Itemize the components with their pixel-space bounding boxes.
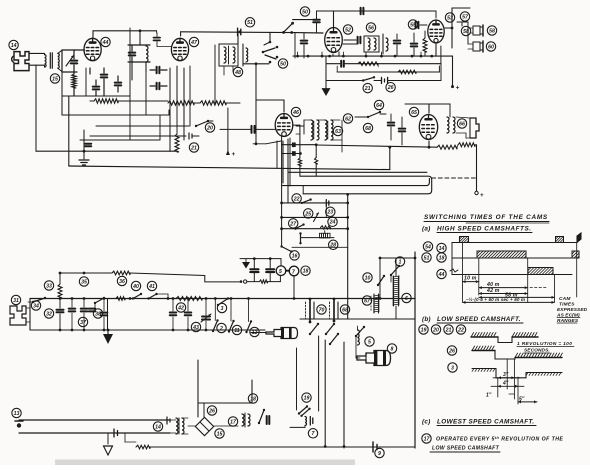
wire y442 <box>117 433 136 442</box>
ref 26t <box>447 346 456 355</box>
bus y140 <box>80 139 160 141</box>
caps mid right <box>388 114 406 145</box>
ref 41 <box>147 281 156 290</box>
switch pot <box>299 232 301 244</box>
ref 65 <box>409 107 418 116</box>
switch 51 blade <box>284 19 294 34</box>
ref 31 <box>11 295 20 304</box>
svg-text:11: 11 <box>234 328 239 334</box>
ref 56 <box>366 23 375 32</box>
switch 2b <box>212 319 219 332</box>
svg-text:15: 15 <box>52 76 58 82</box>
svg-text:6: 6 <box>405 296 408 302</box>
relay coil 68 <box>330 298 339 323</box>
wire tank down <box>132 62 146 80</box>
ref 11 <box>232 325 241 334</box>
ref 12 <box>250 327 259 336</box>
main bus y298 <box>30 297 415 300</box>
screen cap <box>115 76 122 92</box>
svg-text:51: 51 <box>247 20 253 26</box>
bypass cap C2 <box>93 80 100 96</box>
transformer T1 <box>45 50 63 71</box>
ref 15b <box>215 429 224 438</box>
switch 20 <box>195 120 213 127</box>
svg-text:25: 25 <box>304 211 311 217</box>
ref 34 <box>31 301 40 310</box>
jack wires <box>251 332 266 334</box>
svg-text:27: 27 <box>289 221 297 227</box>
cap 50t <box>313 11 320 33</box>
vert x326 <box>319 336 326 446</box>
battery 13 <box>15 417 23 428</box>
cathode resistor R1 <box>72 68 107 96</box>
dim b vert <box>498 359 518 404</box>
transformer 14 <box>170 418 188 434</box>
caps on buses <box>0 0 1 1</box>
transformer 66 <box>444 117 455 133</box>
ref 35 <box>79 277 88 286</box>
dim 10m <box>463 276 479 284</box>
ref 37 <box>78 317 87 326</box>
tube V2 <box>171 38 188 60</box>
bus y101-115 <box>62 101 240 115</box>
grid cap C1 <box>71 50 78 72</box>
ground V4 <box>322 56 331 96</box>
svg-text:HIGH SPEED CAMSHAFTS.: HIGH SPEED CAMSHAFTS. <box>437 226 532 233</box>
microphone input jack <box>12 52 29 71</box>
mid verticals <box>130 28 215 140</box>
V3 V6 row wires <box>277 134 300 186</box>
ref 19b <box>302 393 311 402</box>
row2 bar2 <box>572 251 579 258</box>
wire V3 top <box>256 100 284 112</box>
ref 50b <box>278 59 287 68</box>
relay coil 67 <box>371 294 380 313</box>
row3 circle <box>437 269 458 279</box>
switch 1 <box>390 265 400 282</box>
tube V1V2 down wires <box>86 66 190 151</box>
variable resistor arrow <box>62 50 74 72</box>
wire rotary up <box>269 32 271 42</box>
gnd big <box>103 330 113 344</box>
svg-text:1 REVOLUTION = 100: 1 REVOLUTION = 100 <box>517 341 572 347</box>
rotary switch 50 <box>262 41 279 64</box>
ref 17t <box>422 434 431 443</box>
ref 51 <box>245 18 254 27</box>
left verticals <box>62 72 69 166</box>
res bottom <box>125 442 190 449</box>
title a <box>422 226 532 233</box>
tube V6 <box>419 115 437 140</box>
svg-text:(a): (a) <box>422 226 430 233</box>
cap 19 <box>310 417 313 426</box>
svg-text:OPERATED EVERY 5th REVOLUTI: OPERATED EVERY 5th REVOLUTION OF THE <box>436 436 563 443</box>
svg-text:1″: 1″ <box>486 393 492 399</box>
ref 3t <box>448 363 457 372</box>
wire mic to transformer <box>29 53 44 151</box>
switch 12 <box>245 320 252 333</box>
res to oplus <box>457 143 477 191</box>
cap 32c <box>57 310 64 313</box>
tube V5 <box>428 20 444 43</box>
cap bottom <box>114 429 118 437</box>
dim verticals <box>463 243 577 303</box>
svg-text:58: 58 <box>489 28 495 34</box>
v3 plate down <box>293 125 302 176</box>
wire 26 <box>198 403 252 417</box>
cathode V5 <box>435 44 437 56</box>
res row y65 <box>358 62 416 74</box>
ref 9 <box>375 448 384 457</box>
ref 60 <box>486 42 495 51</box>
svg-text:5: 5 <box>279 269 282 275</box>
svg-text:SECONDS.: SECONDS. <box>524 348 550 354</box>
wire IF to rotary <box>237 32 239 44</box>
ref 22 <box>292 194 301 203</box>
ref 57 <box>460 12 469 21</box>
ref 18m <box>301 266 310 275</box>
switch 40 <box>132 293 146 300</box>
chain verticals <box>198 348 297 417</box>
tube V1 <box>84 38 101 60</box>
coupling cap 2628 <box>0 0 1 1</box>
wire T1 top to tube grid <box>62 49 85 51</box>
cap V3 left <box>220 126 275 133</box>
svg-text:15: 15 <box>217 431 223 437</box>
plug 8 <box>357 351 391 366</box>
filament loop <box>19 420 170 433</box>
svg-text:64: 64 <box>376 103 382 109</box>
svg-text:~½·(0·5 + 60 m sec + 60 m: ~½·(0·5 + 60 m sec + 60 m <box>466 296 525 302</box>
svg-text:26: 26 <box>208 408 215 414</box>
cam times note <box>556 296 588 324</box>
dim 3in <box>493 372 520 379</box>
gnd arrow mid <box>242 259 250 269</box>
cap rail <box>238 28 241 36</box>
ref 38 <box>93 309 102 318</box>
svg-text:14: 14 <box>439 246 445 252</box>
ref 47 <box>189 37 198 46</box>
svg-text:50: 50 <box>280 61 286 67</box>
svg-text:41: 41 <box>148 284 155 290</box>
antenna input <box>295 33 307 58</box>
note 17b <box>430 446 500 453</box>
plus arrow <box>226 108 236 158</box>
o resistor <box>240 275 281 283</box>
svg-text:3″: 3″ <box>503 372 509 378</box>
cap 18 <box>266 414 272 426</box>
ref 42 <box>176 303 185 312</box>
svg-text:65: 65 <box>411 110 417 116</box>
bus2 y63 <box>326 46 441 67</box>
battery 26b <box>374 77 388 83</box>
bus y273 <box>59 272 240 282</box>
mid caps right block <box>394 31 427 56</box>
ref 70 <box>317 305 326 314</box>
svg-text:42 m: 42 m <box>486 288 500 294</box>
bus res 42 <box>176 297 202 301</box>
ref 50 <box>300 7 309 16</box>
row b circles <box>419 325 466 334</box>
svg-text:19: 19 <box>304 395 310 401</box>
long bus y166 <box>69 166 390 170</box>
svg-text:3: 3 <box>451 365 454 371</box>
ref 33 <box>44 281 53 290</box>
wire y176 <box>300 176 431 194</box>
motor drop <box>293 276 295 299</box>
svg-text:60: 60 <box>488 44 494 50</box>
svg-text:54: 54 <box>425 244 431 250</box>
earpiece 60 <box>468 41 483 52</box>
loop end comp <box>167 417 170 433</box>
ref 67 <box>362 296 371 305</box>
wire 66 out <box>453 117 470 138</box>
ref 58a <box>461 26 470 35</box>
ref 40 <box>131 281 140 290</box>
ref 16m <box>290 251 299 260</box>
res 39 <box>0 0 1 1</box>
ref 10 <box>363 273 372 282</box>
note 17 <box>436 436 563 443</box>
V6 cathode res <box>428 141 457 149</box>
row3 <box>280 227 348 230</box>
bus y136 <box>90 133 199 139</box>
battery 9 <box>369 442 377 452</box>
svg-text:21: 21 <box>445 327 452 333</box>
ref 26b2 <box>207 406 216 415</box>
ref 68 <box>340 305 349 314</box>
svg-text:68: 68 <box>365 126 371 132</box>
svg-text:50: 50 <box>302 9 308 15</box>
stub y153 <box>282 151 302 156</box>
svg-text:26: 26 <box>387 85 394 91</box>
motor 7 <box>289 266 299 276</box>
svg-text:31: 31 <box>13 298 19 304</box>
wire V6 top <box>405 104 450 117</box>
earphone 31 <box>10 306 26 325</box>
gnd drop wire <box>107 299 109 331</box>
wire y417 <box>190 418 196 448</box>
bus3 y72 <box>337 66 439 72</box>
dashed line to oterm <box>432 177 477 179</box>
wire y19 <box>293 19 316 21</box>
wire v259 <box>243 62 269 145</box>
central verticals <box>282 136 288 247</box>
ref 23 <box>326 207 335 216</box>
wire 19 left <box>290 426 305 428</box>
cap mid2 <box>150 83 167 90</box>
ground amp <box>79 130 89 165</box>
svg-text:(b): (b) <box>422 316 431 323</box>
row1 <box>280 202 348 205</box>
left bottom bus <box>30 299 265 332</box>
svg-text:4″: 4″ <box>502 381 509 387</box>
dim 40m <box>479 282 548 289</box>
svg-text:44: 44 <box>438 272 445 278</box>
wire 4041 <box>163 294 168 299</box>
title b <box>422 316 523 323</box>
svg-text:32: 32 <box>46 311 52 317</box>
motor 5 <box>276 266 289 276</box>
svg-text:42: 42 <box>177 305 184 311</box>
svg-text:52: 52 <box>345 27 351 33</box>
relay contacts <box>309 321 335 335</box>
svg-text:2: 2 <box>219 326 223 332</box>
relay vert right <box>380 252 415 448</box>
row1 line <box>452 243 577 275</box>
ref 43 <box>191 322 200 331</box>
svg-text:22: 22 <box>457 327 464 333</box>
svg-text:+: + <box>232 152 236 158</box>
anode resistor row <box>94 99 226 105</box>
battery 23 <box>326 200 329 218</box>
ref 1 <box>395 257 404 266</box>
ref 25 <box>304 209 313 218</box>
svg-text:21: 21 <box>364 86 371 92</box>
revolution note <box>517 341 574 354</box>
IF can stubs <box>224 66 233 75</box>
svg-text:20: 20 <box>432 327 439 333</box>
svg-text:10 m: 10 m <box>464 276 477 282</box>
rowb1 <box>471 333 538 343</box>
svg-text:36: 36 <box>119 279 125 285</box>
transformer 62-63 <box>296 120 342 152</box>
svg-text:48: 48 <box>234 70 241 76</box>
res 24 <box>321 226 331 229</box>
row2 line <box>452 257 572 259</box>
ref 24 <box>328 217 337 226</box>
wire y169 <box>288 146 427 173</box>
wire sw row <box>388 64 441 81</box>
svg-text:9: 9 <box>378 451 381 457</box>
switch 10 <box>377 275 385 286</box>
ref 61 <box>0 0 1 1</box>
ref 26b <box>386 83 395 92</box>
top relay feed <box>379 252 417 273</box>
wire V5 top <box>406 11 436 18</box>
row2 bar <box>477 251 526 258</box>
switch 22 <box>301 198 312 204</box>
output device <box>470 118 479 138</box>
svg-text:21: 21 <box>190 145 197 151</box>
dim 1in <box>486 393 514 399</box>
svg-text:40: 40 <box>132 284 139 290</box>
cap 57 top <box>458 7 470 9</box>
svg-text:LOWEST SPEED CAMSHAFT.: LOWEST SPEED CAMSHAFT. <box>437 419 534 426</box>
coil small <box>0 0 1 1</box>
svg-text:LOW SPEED CAMSHAFT.: LOW SPEED CAMSHAFT. <box>437 316 521 323</box>
ref 27 <box>289 219 298 228</box>
motor wires <box>240 257 281 266</box>
ref 53 <box>445 13 454 22</box>
tube V4 <box>325 28 343 53</box>
svg-text:LOW SPEED CAMSHAFT: LOW SPEED CAMSHAFT <box>432 446 500 452</box>
ref 7b <box>308 429 317 438</box>
resistor 21 <box>175 103 179 160</box>
switch 18b <box>252 403 265 424</box>
ref 64 <box>374 100 383 109</box>
IF transformer 48 <box>219 44 248 66</box>
ref 5r <box>365 337 374 346</box>
dim 5in <box>518 397 537 404</box>
V4 cathode down <box>333 52 339 56</box>
svg-text:26: 26 <box>448 348 455 354</box>
coil 5a <box>358 326 360 345</box>
plug 8 wires <box>356 344 360 358</box>
ref 15 <box>50 74 59 83</box>
cap 38c <box>101 300 108 330</box>
ref 17b <box>228 417 237 426</box>
right block buses <box>293 52 453 57</box>
top rail right <box>317 10 407 12</box>
vibrator 15 <box>188 417 222 435</box>
pot row <box>301 237 335 239</box>
svg-text:47: 47 <box>190 40 198 46</box>
ref 8 <box>387 344 396 353</box>
wire earphone <box>26 299 30 331</box>
right rows vertical <box>346 193 349 319</box>
ref 28 <box>329 240 338 249</box>
svg-text:CAM: CAM <box>559 296 571 302</box>
row1 pulse1 <box>460 237 469 243</box>
ref 2 <box>217 323 226 332</box>
wire V1 plate up <box>93 29 157 37</box>
svg-text:+: + <box>480 193 484 199</box>
switch 16 <box>280 245 347 253</box>
row2 circles <box>422 253 446 262</box>
dim 42m <box>479 288 528 295</box>
dim 4in <box>491 381 524 388</box>
svg-text:35: 35 <box>81 279 87 285</box>
IF transformer 56 <box>364 34 388 54</box>
row1 pulse2 <box>556 237 564 243</box>
relay bus top <box>300 299 415 320</box>
switch 19a <box>298 405 311 417</box>
svg-text:TIMES: TIMES <box>559 302 575 308</box>
coupling cap V4 <box>334 8 391 28</box>
bus res 39 <box>116 297 125 301</box>
svg-text:23: 23 <box>326 210 333 216</box>
svg-text:13: 13 <box>14 411 20 417</box>
svg-text:18: 18 <box>303 269 309 275</box>
svg-text:5: 5 <box>368 339 371 345</box>
plus terminal right <box>451 56 460 91</box>
wire y185 <box>282 179 430 186</box>
svg-text:33: 33 <box>46 283 52 289</box>
svg-text:51: 51 <box>424 255 430 261</box>
caps 42 <box>170 299 192 331</box>
svg-text:46: 46 <box>292 110 299 116</box>
svg-text:19: 19 <box>421 327 427 333</box>
coupling cap mid <box>150 67 167 74</box>
ref 46t <box>291 107 300 116</box>
row3 bar <box>528 268 553 275</box>
svg-text:20: 20 <box>206 125 213 131</box>
wires into relay <box>0 0 1 1</box>
bottom bus y447 <box>190 445 415 448</box>
vert 316 <box>315 145 318 176</box>
svg-text:SWITCHING TIMES OF THE CAM: SWITCHING TIMES OF THE CAMS <box>424 214 548 221</box>
svg-text:62: 62 <box>345 116 351 122</box>
ref 63 <box>333 126 342 135</box>
svg-text:63: 63 <box>335 129 341 135</box>
svg-text:18: 18 <box>439 255 445 261</box>
tank circuit 45 <box>128 31 150 62</box>
switch 5r <box>355 326 365 344</box>
svg-text:44: 44 <box>102 40 109 46</box>
ref 20 <box>205 123 214 132</box>
rowb3 <box>472 369 562 378</box>
